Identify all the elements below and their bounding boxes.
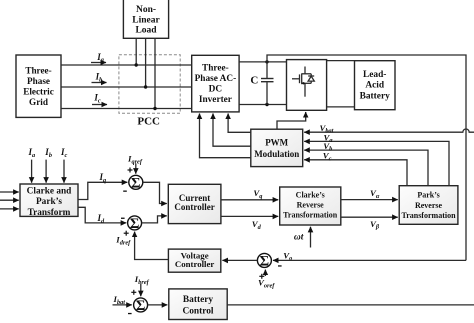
junction dot [135, 63, 138, 66]
wire: phase c grid to inverter [61, 108, 192, 110]
svg-text:Controller: Controller [174, 202, 214, 212]
wire: input a to transform [0, 191, 19, 193]
wire: Vb from Park's to PWM [304, 150, 428, 186]
svg-text:Controller: Controller [175, 259, 215, 269]
wire: omega-t into Clarke's reverse [310, 227, 312, 248]
svg-text:Non-: Non- [136, 5, 156, 15]
junction dot [265, 103, 268, 106]
summing junction S1 [129, 175, 143, 191]
wire: PWM gate signal 3 to inverter [200, 114, 251, 158]
wire: non-linear load lead 2 [145, 38, 147, 87]
wire: S2 output to current controller [142, 216, 167, 223]
box: switch enclosure [287, 60, 327, 111]
svg-text:Park’s: Park’s [36, 197, 62, 207]
wire: Ibat into S4 [113, 304, 132, 306]
svg-text:Phase: Phase [27, 76, 50, 86]
svg-text:C: C [250, 75, 258, 87]
svg-text:Transformation: Transformation [401, 211, 456, 220]
wire: input b to transform [0, 199, 19, 201]
wire: switch to battery bottom [327, 106, 355, 108]
svg-text:ωt: ωt [294, 233, 304, 243]
dashed region PCC [119, 55, 180, 114]
svg-text:Electric: Electric [23, 87, 54, 97]
wire: Vq to Clarke's reverse [221, 199, 278, 201]
svg-text:Park’s: Park’s [417, 191, 439, 200]
sign plus [124, 231, 129, 236]
current arrow Ic [92, 93, 107, 105]
wire: DC bus top inverter to switch [239, 61, 286, 63]
wire: Valpha to Park's reverse [341, 199, 398, 201]
summing junction S4 [134, 298, 148, 314]
wire: input c to transform [0, 208, 19, 210]
wire: Ia sense into transform [31, 160, 33, 183]
current arrow Ib [92, 72, 107, 84]
box: Clarke and Park's Transform [20, 184, 78, 218]
svg-text:Battery: Battery [183, 295, 214, 305]
wire: Vc from Park's to PWM [304, 160, 407, 186]
svg-text:Three-: Three- [202, 64, 229, 74]
svg-text:Clarke’s: Clarke’s [296, 191, 325, 200]
sign minus [123, 191, 127, 192]
box: Voltage Controller [168, 249, 220, 272]
wire: PWM to switch gate [277, 112, 306, 129]
wire: Vbat feedback with hop over right rail [304, 129, 474, 132]
svg-text:DC: DC [209, 85, 222, 95]
wire: Va from Park's to PWM [304, 141, 449, 185]
svg-text:Σ: Σ [260, 253, 269, 269]
svg-text:Transform: Transform [28, 208, 71, 218]
box: Battery Control [169, 289, 227, 320]
wire: phase a grid to inverter [61, 64, 192, 66]
sign plus [128, 168, 133, 173]
wire: S3 output to voltage controller [222, 259, 257, 261]
svg-text:Acid: Acid [365, 81, 385, 91]
sign plus [259, 274, 264, 279]
box: Clarke's Reverse Transformation [280, 187, 341, 225]
capacitor C [261, 62, 274, 105]
box: Park's Reverse Transformation [399, 186, 458, 225]
wire: non-linear load lead 3 [154, 38, 156, 108]
wire: S4 output to battery control [148, 304, 168, 306]
wire: Voref stub into S3 [264, 270, 266, 276]
svg-text:Clarke and: Clarke and [27, 187, 73, 197]
wire: phase b grid to inverter [61, 86, 192, 88]
box: Three-Phase AC-DC Inverter [192, 55, 239, 112]
junction dot [144, 85, 147, 88]
box: Three-Phase Electric Grid [16, 55, 61, 117]
wire: Ib sense into transform [45, 160, 47, 183]
wire: Ic sense into transform [63, 160, 65, 183]
svg-text:Linear: Linear [132, 15, 160, 25]
svg-text:Load: Load [135, 25, 157, 35]
current arrow Ia [91, 52, 106, 64]
wire: switch to battery top [327, 60, 355, 62]
svg-text:Modulation: Modulation [254, 149, 299, 159]
svg-text:Σ: Σ [131, 175, 140, 191]
svg-text:Control: Control [182, 306, 213, 316]
svg-text:Σ: Σ [136, 298, 145, 314]
wire: DC bus top rail over to right side [267, 55, 466, 260]
svg-text:Reverse: Reverse [297, 200, 325, 209]
svg-text:Σ: Σ [130, 216, 139, 232]
transistor Q1: IGBT with antiparallel diode [292, 67, 314, 97]
svg-text:Reverse: Reverse [415, 201, 443, 210]
wire: PWM gate signal 2 to inverter [213, 114, 251, 147]
junction dot [153, 107, 156, 110]
summing junction S3 [257, 253, 271, 269]
sign plus [131, 290, 136, 295]
summing junction S2 [128, 216, 142, 232]
svg-text:Battery: Battery [360, 91, 391, 101]
svg-text:Transformation: Transformation [283, 211, 338, 220]
wire: Vo feedback from right rail into S3 [273, 259, 466, 261]
sign minus [121, 218, 125, 219]
wire: battery control output [227, 304, 474, 306]
svg-text:PWM: PWM [265, 138, 288, 148]
wire: Iq to summing junction S1 [78, 182, 127, 199]
sign minus [128, 313, 132, 314]
wire: Id to summing junction S2 [78, 207, 126, 223]
svg-text:Phase AC-: Phase AC- [195, 74, 237, 84]
box: Current Controller [168, 184, 221, 223]
svg-text:Lead-: Lead- [363, 70, 386, 80]
box: Non-Linear Load [123, 0, 168, 38]
sign minus [278, 265, 282, 266]
junction dot [265, 60, 268, 63]
wire: Vbeta to Park's reverse [341, 216, 398, 218]
wire: S1 output to current controller [143, 182, 167, 203]
svg-text:Grid: Grid [29, 97, 48, 107]
box: PWM Modulation [251, 129, 303, 166]
wire: PWM gate signal 1 to inverter [228, 114, 251, 133]
wire: Ibref stub into S4 [140, 284, 142, 296]
wire: non-linear load lead 1 [135, 38, 137, 65]
wire: DC bus bottom inverter to switch [239, 104, 286, 106]
box: Lead-Acid Battery [355, 61, 396, 110]
svg-text:Inverter: Inverter [199, 95, 232, 105]
svg-text:Three-: Three- [25, 65, 51, 75]
wire: Vd to Clarke's reverse [221, 215, 278, 217]
wire: voltage controller output Idref to S2 [135, 232, 169, 260]
wire: Iqref stub into S1 [135, 164, 137, 174]
svg-text:PCC: PCC [137, 115, 160, 127]
